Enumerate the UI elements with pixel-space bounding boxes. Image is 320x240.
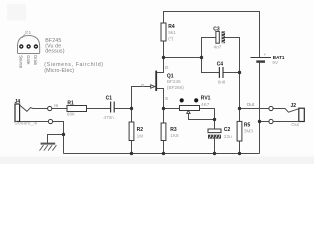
svg-text:6n8: 6n8 [218,80,226,85]
wire RV1 node down to C2 [214,120,216,130]
wire drain lead of Q1 [157,58,164,73]
pin dot S [19,44,23,48]
svg-text:J2: J2 [291,103,297,109]
wire R2 bottom to ground rail [131,141,133,154]
svg-text:3M3: 3M3 [244,129,254,134]
svg-text:4n7: 4n7 [214,45,222,50]
svg-text:1K8: 1K8 [170,133,179,138]
wire sleeve circle to ground rail start [53,122,64,154]
node C2 ground junction dot [213,152,216,155]
wire gate node down to R2 [131,109,133,123]
wire C4 right to node [223,72,240,74]
pinout diagram BF245 package [18,30,104,74]
svg-text:Out: Out [247,102,255,107]
node J2 tip circle [269,106,273,110]
node C3/C4 left junction dot [200,56,203,59]
node C3/C4 right junction dot [238,71,241,74]
svg-text:5k1: 5k1 [168,30,176,35]
svg-text:In: In [54,103,58,108]
resistor R3 [161,123,179,141]
pin dot D [34,44,38,48]
wire C1 to gate node [114,108,131,110]
capacitor C2 [208,127,232,139]
resistor R1 [67,100,87,116]
capacitor C1 [103,95,114,120]
wire ground symbol branch [48,135,64,144]
wire drain node horizontal [164,57,202,59]
wire J2 sleeve to body [273,121,299,123]
wire C3 right to output node column [225,38,240,73]
svg-text:(Micro-Elec): (Micro-Elec) [44,68,74,74]
battery BAT1 [251,52,285,65]
svg-text:G: G [141,83,145,88]
svg-text:(*): (*) [168,36,173,41]
wire R3 bottom to ground rail [163,141,165,154]
svg-text:∅1: ∅1 [25,30,32,35]
node RV1 wiper junction dot [213,118,216,121]
wire output column down to out wire [239,73,241,109]
wire ground rail to J2 sleeve circle [260,121,269,123]
capacitor C4 [217,62,226,85]
wire R5 bottom to ground rail [239,141,241,154]
svg-text:68K: 68K [67,112,76,117]
wire R4 bottom to drain node [163,41,165,58]
svg-text:C1: C1 [106,95,113,101]
resistor R4 [161,23,176,41]
svg-text:4K7: 4K7 [201,102,210,107]
svg-text:J4: J4 [15,99,21,105]
svg-text:470n: 470n [103,115,114,120]
connector J4 [14,99,52,125]
node source junction dot [162,107,165,110]
potentiometer RV1 [180,95,211,113]
node dot right above RV1 [194,98,198,102]
svg-text:RV1: RV1 [201,95,211,101]
svg-text:R5: R5 [244,122,251,128]
wire R1 to C1 [87,108,111,110]
node ground branch junction dot [62,133,65,136]
wire source lead of Q1 [157,89,164,109]
wire battery negative down right rail [259,63,261,154]
node J4 tip circle [48,106,52,110]
node gate junction dot [130,107,133,110]
wire drain node up to C3 left [202,38,216,58]
svg-text:9V: 9V [272,60,279,65]
wire drain node down to C4 left [202,58,220,73]
node R2 ground junction dot [130,152,133,155]
svg-text:Gate.: Gate. [26,55,31,65]
capacitor C3 [213,26,225,49]
wire ground bottom rail [64,153,260,155]
svg-text:R2: R2 [137,127,144,133]
resistor R2 [129,122,143,141]
node R5 ground junction dot [238,152,241,155]
svg-text:(BF256): (BF256) [167,85,184,90]
ground [40,144,57,151]
svg-text:S: S [165,96,168,101]
svg-text:22u: 22u [224,134,232,139]
node drain junction dot [162,56,165,59]
svg-text:Source: Source [19,55,24,69]
wire out node to J2 tip circle [240,108,269,110]
wire input jack tip to R1 [52,108,67,110]
node J4 sleeve circle [48,119,52,123]
pin dot G [26,44,30,48]
svg-text:BF245: BF245 [167,79,181,84]
svg-text:Drain: Drain [33,55,38,66]
svg-text:C4: C4 [217,62,224,68]
wire source node down to R3 [163,109,165,124]
svg-text:Out: Out [291,122,299,127]
wire gate of Q1 to input node [132,87,151,109]
wire out node down to R5 [239,109,241,122]
svg-text:C2: C2 [224,127,231,133]
svg-text:Guitare_In: Guitare_In [14,121,37,126]
connector J2 [269,103,304,127]
wire J2 tip contact [273,109,299,113]
wire RV1 right terminal down [200,109,215,120]
node J2 sleeve junction dot [258,120,261,123]
wire J4 sleeve to ground column [20,121,49,123]
node R3 ground junction dot [162,152,165,155]
svg-text:1M: 1M [137,133,144,138]
node out junction dot [238,107,241,110]
svg-text:C3: C3 [213,26,220,32]
resistor R5 [237,121,253,141]
node dot left above RV1 [180,98,184,102]
wire J4 tip contact [20,105,48,111]
node J2 sleeve circle [269,119,273,123]
wire top supply rail [164,12,260,58]
wire source node to RV1 left [164,108,180,110]
svg-text:R1: R1 [67,100,74,106]
svg-text:dessus): dessus) [45,49,65,55]
wire RV1 wiper to right terminal [189,113,215,120]
wire C2 bottom to ground rail [214,139,216,154]
svg-text:+: + [264,52,267,57]
transistor Q1 [141,65,184,101]
